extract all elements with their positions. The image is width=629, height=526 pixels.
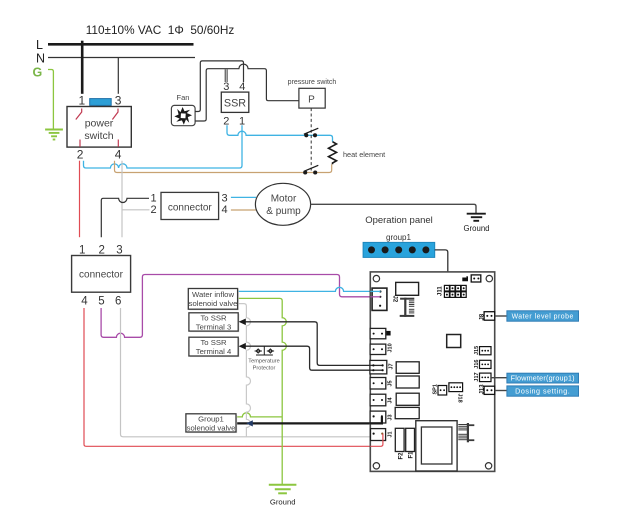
mounting hole bottom-right: [485, 463, 491, 469]
svg-text:P: P: [308, 95, 315, 106]
wire N line: [48, 57, 195, 59]
connector J1: [371, 429, 386, 441]
svg-text:Group1: Group1: [198, 414, 224, 423]
svg-text:G: G: [33, 66, 43, 80]
blue rocker component: [90, 99, 112, 106]
label flowmeter group1: [507, 373, 579, 383]
ground symbol bottom green: [269, 485, 297, 494]
svg-text:L: L: [36, 38, 43, 52]
svg-text:F1: F1: [409, 451, 415, 459]
svg-text:2: 2: [151, 204, 157, 216]
svg-text:J11: J11: [438, 286, 444, 296]
mounting hole bottom-left: [373, 463, 379, 469]
motor M1 Motor and pump: [255, 183, 310, 225]
svg-text:4: 4: [222, 204, 228, 216]
svg-text:Water inflow: Water inflow: [192, 290, 234, 299]
label water level probe: [507, 311, 579, 321]
connector top right 2pin: [471, 275, 481, 282]
wire gray pin6 down to PCB J1: [121, 308, 371, 437]
connector left with black chip: [370, 328, 386, 338]
wire J13 to dosing label: [495, 390, 507, 392]
svg-text:heat element: heat element: [343, 150, 385, 159]
svg-text:Temperature: Temperature: [248, 359, 279, 365]
svg-text:J15: J15: [474, 346, 480, 355]
wire motor to ground: [311, 204, 477, 213]
wire L line: [48, 43, 194, 46]
connector J2: [372, 288, 387, 310]
svg-text:J1: J1: [388, 431, 394, 437]
fan blades icon: [174, 107, 192, 125]
wire black segment into J3: [370, 417, 382, 423]
wire cyan pin2 to SSR pin1: [84, 125, 243, 168]
wire gray pin4 down to big connector pin3: [122, 161, 150, 238]
svg-text:Water level probe: Water level probe: [512, 314, 574, 321]
svg-text:Terminal 4: Terminal 4: [196, 347, 232, 356]
relay K1: [396, 362, 419, 374]
contact top on cyan wire: [304, 128, 318, 137]
pressure switch box: [299, 88, 325, 108]
connector J4: [370, 394, 386, 406]
wire A fan to SSR pin4: [195, 61, 244, 112]
svg-text:Motor: Motor: [271, 194, 297, 205]
connector J18: [449, 383, 463, 392]
thermal fuse temperature protector: [255, 346, 275, 355]
label dosing setting: [507, 386, 579, 396]
svg-text:J10: J10: [388, 343, 394, 352]
wire tan connector pin4 to motor: [231, 209, 258, 211]
connector small box: [161, 192, 219, 219]
svg-text:Operation panel: Operation panel: [365, 215, 433, 226]
svg-text:J13: J13: [479, 384, 485, 395]
mounting hole top-left: [373, 275, 379, 281]
svg-text:SP1: SP1: [433, 384, 439, 394]
relay K3: [396, 393, 419, 405]
wire black to SSR terminal3 to PCB J7: [244, 322, 382, 366]
relay K2: [396, 376, 419, 388]
wire J17 to flowmeter label: [491, 377, 507, 379]
svg-text:J17: J17: [474, 372, 480, 381]
svg-text:2: 2: [99, 245, 105, 257]
svg-text:& pump: & pump: [266, 206, 301, 217]
power switch box: [67, 107, 131, 148]
connector J17: [480, 373, 492, 382]
relay K4: [395, 407, 419, 418]
wire gray scalloped water inflow valve down: [238, 304, 251, 437]
svg-text:3: 3: [115, 94, 122, 108]
svg-text:solenoid valve: solenoid valve: [187, 424, 236, 433]
wire black to SSR terminal4 to PCB J7: [244, 346, 382, 370]
svg-text:pressure switch: pressure switch: [288, 79, 337, 86]
fuse F2: [395, 428, 404, 451]
svg-text:Fan: Fan: [177, 93, 190, 102]
box group1 solenoid valve: [187, 415, 237, 433]
svg-text:J2: J2: [392, 296, 398, 303]
IC U1 square: [447, 335, 461, 348]
svg-text:group1: group1: [386, 233, 411, 242]
svg-text:To SSR: To SSR: [200, 313, 227, 322]
wire cyan segment into J2: [370, 290, 380, 292]
svg-text:J5: J5: [388, 380, 394, 386]
wire double stub to SSR pin3: [224, 69, 226, 82]
fan box: [171, 105, 195, 125]
wire red pin2 down to connector pin1: [79, 161, 81, 238]
svg-text:2: 2: [77, 148, 84, 162]
connector J3: [370, 411, 386, 423]
svg-text:F2: F2: [398, 452, 404, 460]
svg-text:110±10% VAC 1Φ 50/60Hz: 110±10% VAC 1Φ 50/60Hz: [86, 23, 235, 37]
svg-text:J7: J7: [389, 363, 395, 369]
wire red segment into J1: [370, 434, 383, 447]
heatsink top: [400, 298, 415, 317]
transformer T1 inner: [421, 427, 452, 464]
heatsink bottom right: [458, 423, 474, 442]
arrowhead navy on group1 wire: [246, 420, 253, 426]
relay top white box: [396, 282, 419, 295]
connector J10: [370, 344, 386, 354]
connector J7: [370, 360, 387, 374]
svg-text:Dosing setting.: Dosing setting.: [515, 387, 570, 396]
wire L to pin1: [81, 41, 84, 94]
svg-text:To SSR: To SSR: [200, 338, 227, 347]
group1 header bar: [363, 242, 435, 257]
wire N to pin3: [117, 58, 119, 94]
svg-text:Ground: Ground: [270, 498, 296, 507]
svg-text:3: 3: [222, 192, 228, 204]
wire red big connector pin4 down to PCB J1: [84, 308, 383, 446]
connector SP1: [438, 386, 447, 396]
svg-text:J16: J16: [474, 360, 480, 369]
op-amp SSR box: [221, 92, 249, 112]
svg-text:1: 1: [151, 192, 157, 204]
svg-text:Terminal 3: Terminal 3: [196, 323, 231, 332]
svg-text:4: 4: [239, 81, 245, 93]
wire group1 bar to PCB J11: [435, 250, 448, 285]
wire cyan connector pin3 to motor: [231, 196, 256, 198]
svg-text:solenoid valve: solenoid valve: [189, 299, 238, 308]
resistor heat element: [329, 142, 337, 165]
svg-text:1: 1: [239, 116, 245, 128]
box water inflow solenoid valve: [190, 290, 239, 311]
connector big box: [72, 256, 131, 293]
connector J16: [480, 360, 492, 368]
svg-text:switch: switch: [84, 130, 113, 142]
PCB board outline: [370, 272, 494, 472]
fuse F1: [406, 428, 415, 451]
svg-text:power: power: [85, 118, 114, 130]
svg-text:N: N: [36, 52, 45, 66]
connector J15: [480, 347, 492, 355]
svg-text:Protector: Protector: [253, 366, 276, 372]
svg-text:4: 4: [81, 296, 88, 308]
svg-text:5: 5: [98, 296, 104, 308]
switch contact marks red: [76, 109, 119, 147]
svg-text:1: 1: [79, 245, 85, 257]
box to SSR terminal 3: [190, 314, 239, 332]
svg-text:Flowmeter(group1): Flowmeter(group1): [511, 374, 575, 383]
svg-text:connector: connector: [168, 203, 213, 214]
svg-text:J18: J18: [457, 394, 463, 403]
mounting hole top-right: [486, 275, 492, 281]
svg-text:SSR: SSR: [224, 98, 246, 110]
wire purple segment into J2: [370, 296, 380, 298]
connector J13: [484, 386, 495, 394]
wire purple pin5 to PCB J2: [101, 275, 380, 338]
wire black small connector pin1 to big connector pin2: [101, 198, 149, 237]
transistor icon top right: [462, 276, 468, 281]
svg-text:connector: connector: [79, 270, 124, 281]
wire J8 to water level probe label: [495, 315, 507, 317]
svg-text:J4: J4: [388, 396, 394, 403]
contact bottom on tan wire: [304, 165, 318, 174]
wire B fan to pressure switch with bump over pin4 wire: [195, 64, 299, 121]
ground symbol right: [467, 214, 486, 221]
dashed link pressure switch to contacts: [310, 108, 312, 171]
svg-text:4: 4: [115, 148, 122, 162]
wire green water inflow valve down to ground: [238, 298, 287, 484]
svg-text:Ground: Ground: [463, 224, 489, 233]
wire cyan water inflow valve to PCB J2 with bump over purple: [238, 287, 381, 291]
box to SSR terminal 4: [190, 338, 239, 357]
wire cyan SSR pin2 to heat element top: [227, 125, 333, 141]
svg-text:J3: J3: [388, 414, 394, 420]
svg-text:3: 3: [116, 245, 122, 257]
wire green group1 valve to green vertical with bump over gray: [236, 413, 282, 417]
arrow into terminal3 box: [239, 319, 246, 326]
svg-text:6: 6: [115, 296, 121, 308]
wire black thick group1 valve to PCB J3: [236, 417, 382, 423]
svg-text:3: 3: [223, 81, 229, 93]
wire tan pin4 to heat element bottom: [115, 161, 332, 173]
ground earth symbol left: [45, 130, 63, 140]
arrow into terminal4 box: [239, 343, 246, 350]
wire G green: [48, 70, 53, 129]
connector J5: [370, 378, 386, 390]
transformer T1 outer: [416, 421, 457, 471]
svg-text:1: 1: [79, 94, 86, 108]
